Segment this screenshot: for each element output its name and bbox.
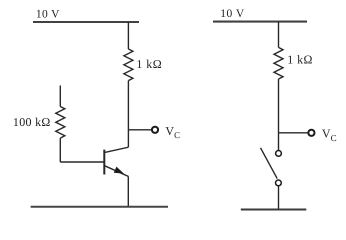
svg-text:1 kΩ: 1 kΩ <box>287 52 313 66</box>
wire left bottom ground rail <box>31 206 168 208</box>
svg-text:100 kΩ: 100 kΩ <box>13 115 51 129</box>
switch S1 top terminal circle <box>276 151 282 157</box>
wire from R2 down to base corner <box>59 138 61 162</box>
resistor R1 1 kOhm (left circuit) <box>124 49 133 81</box>
wire base input vertical top (open end) <box>59 86 61 107</box>
transistor Q1 base bar <box>103 150 105 175</box>
wire right top supply rail <box>213 21 307 23</box>
wire right vertical from switch to ground rail <box>278 186 280 209</box>
switch S1 blade (open) <box>261 148 278 179</box>
svg-text:1 kΩ: 1 kΩ <box>136 57 162 71</box>
svg-text:10 V: 10 V <box>220 8 245 20</box>
resistor R2 100 kOhm <box>56 107 65 139</box>
wire base horizontal from R2 to base bar <box>60 161 104 163</box>
wire left collector vertical from R1 to transistor collector corner <box>127 81 129 148</box>
resistor R3 1 kOhm (right circuit) <box>274 47 283 79</box>
wire right vertical from R3 to switch <box>278 79 280 150</box>
wire left Vc branch horizontal <box>128 129 151 131</box>
transistor Q1 emitter lead diagonal with arrow <box>105 166 129 177</box>
wire left top supply rail <box>33 21 139 23</box>
wire right vertical from rail to resistor R3 <box>278 22 280 48</box>
terminal circle Vc right <box>308 130 314 136</box>
wire right bottom ground rail <box>241 209 306 211</box>
wire left emitter vertical to ground rail <box>127 176 129 207</box>
switch S1 bottom terminal circle <box>276 180 282 186</box>
transistor Q1 emitter arrowhead <box>114 167 123 173</box>
transistor Q1 collector lead diagonal <box>105 147 129 152</box>
svg-text:10 V: 10 V <box>36 9 60 21</box>
terminal circle Vc left <box>152 127 158 133</box>
wire left collector vertical from rail to resistor R1 <box>127 22 129 49</box>
wire right Vc branch horizontal <box>279 132 309 134</box>
